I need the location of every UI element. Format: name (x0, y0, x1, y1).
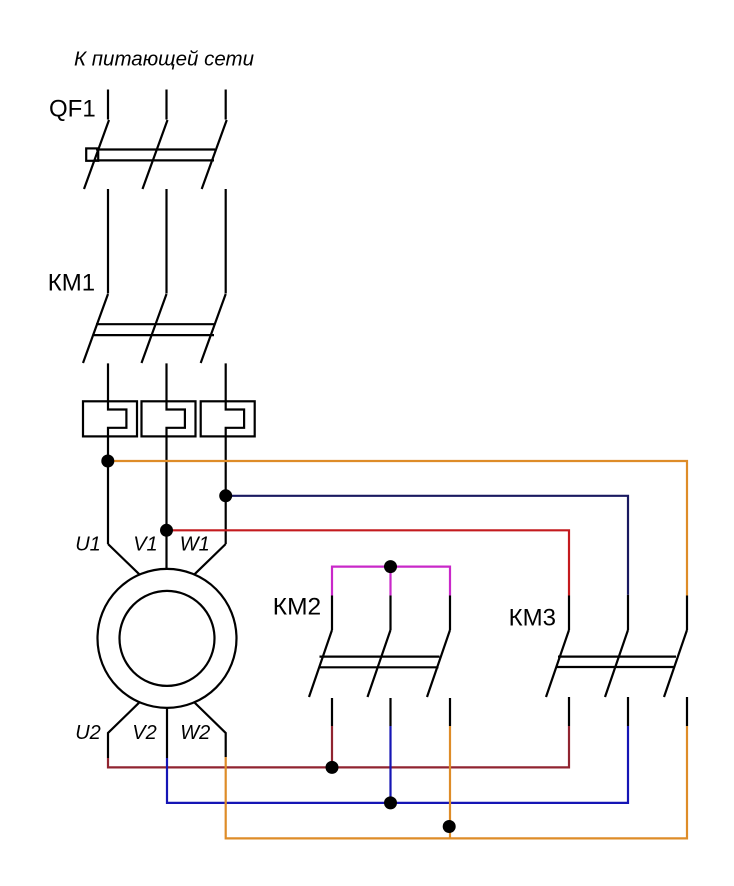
svg-text:КМ1: КМ1 (48, 270, 95, 297)
svg-text:QF1: QF1 (49, 95, 96, 122)
svg-text:U2: U2 (75, 722, 101, 744)
svg-text:К питающей сети: К питающей сети (74, 48, 254, 71)
svg-text:V1: V1 (133, 533, 157, 555)
svg-text:U1: U1 (75, 533, 101, 555)
svg-text:W1: W1 (180, 533, 210, 555)
svg-text:КМ3: КМ3 (509, 604, 556, 631)
svg-text:КМ2: КМ2 (273, 593, 321, 620)
svg-text:V2: V2 (132, 722, 156, 744)
svg-text:W2: W2 (180, 722, 210, 744)
